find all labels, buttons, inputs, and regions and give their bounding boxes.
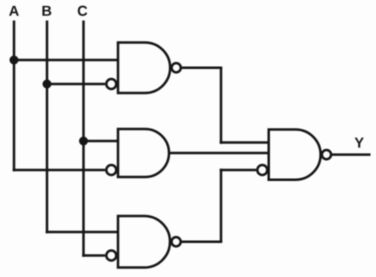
node: junction on A [10, 56, 19, 65]
wire: B to gate U1 inverted input [47, 83, 105, 86]
wire: riser to U4 input 1 [220, 141, 269, 144]
and gate U2 body [118, 129, 169, 177]
input label B [42, 6, 51, 16]
input label A [9, 6, 19, 16]
wire: riser to U4 inverted input [220, 169, 256, 172]
wire: riser down to U4 input 1 level [220, 68, 223, 144]
node: junction on B [43, 80, 52, 89]
wire: A to gate U2 inverted input [13, 169, 105, 172]
wire: U3 output to riser [181, 241, 223, 244]
inverted input bubble U1 pin 2 [106, 79, 116, 89]
nand gate U3 body [118, 216, 170, 268]
output bubble U4 [322, 150, 331, 159]
nand gate U1 body [118, 43, 170, 94]
wire: input B vertical bus [46, 21, 49, 234]
input label C [78, 6, 87, 16]
wire: A to gate U1 input 1 [14, 59, 118, 62]
wire: input C vertical bus [82, 21, 85, 257]
output bubble U1 [172, 63, 181, 72]
wire: C to gate U2 input 1 [84, 140, 119, 143]
nand gate U4 body [269, 130, 321, 180]
node: junction on C [79, 137, 88, 146]
wire: U4 output to Y [331, 153, 370, 156]
output label Y [355, 138, 364, 148]
wire: B to gate U3 input 1 [46, 231, 118, 234]
inverted input bubble U4 pin 3 [257, 165, 267, 175]
output bubble U3 [172, 237, 181, 246]
wire: U2 output to U4 input 2 [169, 152, 269, 155]
wire: input A vertical bus [13, 21, 16, 172]
wire: C to gate U3 inverted input [82, 254, 105, 257]
inverted input bubble U2 pin 2 [106, 165, 116, 175]
wire: U1 output to riser [181, 67, 222, 70]
inverted input bubble U3 pin 2 [106, 251, 116, 261]
wire: riser up to U4 inverted input level [220, 169, 223, 242]
